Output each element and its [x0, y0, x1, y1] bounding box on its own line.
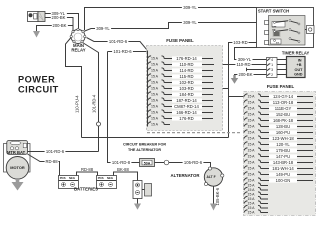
svg-text:113-OR-18: 113-OR-18 — [273, 100, 294, 105]
wire 103-RD start switch riser — [229, 43, 265, 138]
label 105-RD-6 — [183, 161, 204, 165]
wire 110-RD fuse panel to timer relay — [214, 64, 267, 66]
battery BT1 — [59, 176, 79, 189]
svg-text:RD-88: RD-88 — [81, 167, 94, 172]
ground arrow timer — [233, 75, 235, 78]
wire 101-RD-8 down to circuit breaker — [108, 52, 140, 163]
svg-text:120-YL: 120-YL — [276, 142, 290, 147]
svg-text:15 A: 15 A — [248, 173, 256, 177]
fuse F1-12 15A spare — [148, 122, 171, 127]
timer connector pin 3 — [267, 69, 270, 71]
svg-text:15 A: 15 A — [248, 167, 256, 171]
svg-text:181-WH-14: 181-WH-14 — [272, 166, 294, 171]
label 309-YL — [51, 12, 67, 16]
svg-text:POS: POS — [60, 176, 66, 180]
svg-text:+B: +B — [297, 63, 302, 67]
svg-text:101-RD-6: 101-RD-6 — [46, 149, 65, 154]
alternator G1 — [204, 167, 224, 186]
timer connector pin 2 — [267, 74, 270, 76]
svg-text:CIRCUIT: CIRCUIT — [18, 85, 59, 95]
label 103-RD — [232, 41, 248, 45]
footnote tiny dashed note under fuse panel 1 — [147, 132, 242, 134]
timer relay connector pins — [267, 58, 278, 78]
svg-text:168-PK-18: 168-PK-18 — [273, 118, 294, 123]
wire 105-RD-6 breaker to alternator — [155, 163, 211, 169]
svg-text:OUT: OUT — [294, 68, 303, 72]
fuse F2-2 15A 113-OR-18 — [244, 100, 313, 105]
svg-text:124-GY-14: 124-GY-14 — [273, 94, 294, 99]
inline connector circle — [164, 160, 169, 165]
svg-text:102-RD: 102-RD — [179, 80, 193, 85]
svg-text:15 A: 15 A — [248, 137, 256, 141]
svg-text:15 A: 15 A — [248, 149, 256, 153]
svg-text:NEG: NEG — [107, 176, 113, 180]
start switch inner contact block — [269, 16, 306, 46]
label 309-YL — [182, 6, 198, 10]
svg-text:THE ALTERNATOR: THE ALTERNATOR — [128, 148, 161, 152]
fuse F1-2 15A 110-RD — [148, 62, 215, 67]
fuse F1-9 15A CM87-RD-14 — [148, 104, 214, 109]
start switch side key box — [305, 29, 307, 31]
label 101-RD-6 — [108, 40, 129, 44]
ground arrow disconnect switch — [134, 204, 141, 210]
svg-text:110-RD: 110-RD — [179, 62, 193, 67]
svg-text:BK-88: BK-88 — [117, 167, 129, 172]
wire 101-RD-6 branch bracket — [108, 51, 148, 53]
svg-text:15 A: 15 A — [151, 75, 159, 79]
svg-text:POS: POS — [98, 176, 104, 180]
svg-text:15 A: 15 A — [248, 155, 256, 159]
fuse F2-20 15A spare — [244, 201, 268, 206]
motor solenoid connector MTR BAT — [7, 141, 28, 156]
wire feed to right fuse panel top — [229, 96, 244, 98]
svg-text:RD-88: RD-88 — [45, 159, 58, 164]
svg-text:ON: ON — [272, 29, 276, 31]
fuse F2-11 15A 147-PU — [244, 154, 313, 159]
label 110-RD — [235, 63, 251, 67]
wire timer pin3 stub — [247, 68, 267, 71]
fuse F2-3 15A 111B-GY — [244, 106, 313, 111]
fuse F1-8 15A 187-RD-14 — [148, 98, 214, 103]
svg-text:OFF: OFF — [272, 27, 277, 29]
fuse F2-19 15A spare — [244, 196, 268, 201]
svg-text:15 A: 15 A — [151, 57, 159, 61]
wire 110-PU-4 from relay left down to bottom bus — [66, 38, 82, 138]
svg-text:110-RD: 110-RD — [236, 62, 250, 67]
fuse F1-3 15A 114-RD — [148, 68, 214, 73]
svg-text:152-BU: 152-BU — [276, 112, 290, 117]
svg-text:FUSE PANEL: FUSE PANEL — [267, 84, 295, 89]
svg-text:143-BR-18: 143-BR-18 — [273, 160, 294, 165]
fuse F2-10 15A 179-BU — [244, 148, 313, 153]
fuse F1-5 15A 102-RD — [148, 80, 214, 85]
label 309-YL — [236, 58, 252, 62]
svg-text:TIMER RELAY: TIMER RELAY — [282, 50, 310, 55]
svg-text:15 A: 15 A — [248, 184, 256, 188]
svg-text:101-RD-6: 101-RD-6 — [113, 49, 132, 54]
fuse F2-9 15A 120-YL — [244, 142, 313, 147]
fuse panel 1 (left) box — [147, 46, 223, 131]
svg-text:184-RD: 184-RD — [179, 92, 193, 97]
svg-text:200-BK: 200-BK — [52, 15, 66, 20]
svg-text:15 A: 15 A — [248, 179, 256, 183]
svg-text:15 A: 15 A — [248, 107, 256, 111]
svg-text:15 A: 15 A — [151, 63, 159, 67]
label 101-RD-8 — [111, 161, 132, 165]
svg-text:RELAY: RELAY — [71, 48, 85, 53]
svg-text:15 A: 15 A — [248, 143, 256, 147]
ground arrow alternator — [210, 204, 217, 211]
fuse F2-4 15A 152-BU — [244, 112, 313, 117]
splice junction circle — [97, 122, 101, 126]
svg-text:200-BK: 200-BK — [239, 72, 253, 77]
svg-text:123-WH-18: 123-WH-18 — [272, 136, 294, 141]
svg-text:110-PU-4: 110-PU-4 — [75, 95, 80, 113]
circuit breaker CB1 50A — [140, 159, 155, 167]
fuse F1-4 15A 115-RD — [148, 74, 214, 79]
svg-text:176-RD-14: 176-RD-14 — [176, 56, 197, 61]
fuse F1-6 15A 103-RD — [148, 86, 215, 91]
wire 101-RD-4 from relay bottom to motor junction — [83, 43, 99, 152]
fuse F2-15 15A 100-GN — [244, 178, 313, 183]
fuse F2-7 15A 160-PU — [244, 130, 313, 135]
timer relay box U1 — [287, 57, 306, 78]
svg-text:101-RD-6: 101-RD-6 — [109, 39, 128, 44]
wire 309-YL start switch to timer relay — [235, 48, 267, 60]
svg-text:147-PU: 147-PU — [276, 154, 290, 159]
svg-text:2: 2 — [271, 73, 273, 77]
svg-text:200-BK: 200-BK — [53, 23, 67, 28]
svg-text:BATTERIES: BATTERIES — [74, 187, 98, 192]
connector J1 (top left) — [28, 12, 48, 22]
svg-text:309-YL: 309-YL — [96, 26, 110, 31]
label 101-RD-6 — [112, 50, 133, 54]
fuse F1-10 15A 166-RD-14 — [148, 110, 214, 115]
wire RD-88 motor to battery 1 — [28, 154, 60, 176]
fuse F1-1 15A 176-RD-14 — [148, 56, 214, 61]
svg-text:101-RD-8: 101-RD-8 — [112, 160, 131, 165]
fuse F2-12 15A 143-BR-18 — [244, 160, 313, 165]
svg-text:GND: GND — [294, 73, 303, 77]
motor frame — [4, 144, 31, 173]
fuse F2-13 15A 181-WH-14 — [244, 166, 313, 171]
start switch inner detail rects — [272, 22, 285, 28]
svg-text:15 A: 15 A — [248, 161, 256, 165]
start switch S1 outer box — [257, 8, 314, 48]
svg-text:3: 3 — [271, 68, 273, 72]
svg-text:15 A: 15 A — [248, 202, 256, 206]
start switch contacts — [274, 20, 301, 43]
fuse F2-21 15A spare — [244, 205, 268, 210]
wire 309-YL second line from main relay to start switch pin B — [84, 23, 265, 32]
svg-text:NEG: NEG — [69, 176, 75, 180]
wire BK-88 battery2 to disconnect switch — [114, 172, 138, 181]
label RD-88 — [45, 160, 59, 164]
label 101-RD-6 — [45, 150, 66, 154]
svg-text:115-RD: 115-RD — [179, 74, 193, 79]
svg-text:309-YL: 309-YL — [183, 20, 197, 25]
svg-text:114-RD: 114-RD — [179, 68, 193, 73]
svg-text:MTR BAT: MTR BAT — [7, 150, 26, 155]
fuse F2-5 15A 168-PK-18 — [244, 118, 313, 123]
svg-text:187-RD-14: 187-RD-14 — [176, 98, 197, 103]
wire 101-RD-6 main relay to fuse panel feed — [87, 38, 148, 127]
wire 200-BK connector ground branch — [37, 26, 74, 32]
svg-text:128-BU: 128-BU — [276, 124, 290, 129]
svg-text:POWER: POWER — [18, 75, 55, 85]
svg-text:15 A: 15 A — [248, 193, 256, 197]
fuse F2-16 15A spare — [244, 183, 268, 188]
wire branch to fuse row 103-RD — [214, 88, 229, 90]
svg-text:IN: IN — [298, 58, 302, 62]
start switch pins — [265, 21, 269, 45]
fuse F2-22 15A spare — [244, 210, 268, 215]
svg-text:15 A: 15 A — [151, 111, 159, 115]
battery BT2 — [97, 176, 117, 189]
svg-text:15 A: 15 A — [151, 123, 159, 127]
battery disconnect switch S2 — [133, 181, 152, 199]
svg-text:15 A: 15 A — [151, 105, 159, 109]
fuse F2-8 15A 123-WH-18 — [244, 136, 313, 141]
wire 200-BK timer relay to ground — [235, 75, 267, 79]
main relay K1 — [70, 28, 86, 43]
fuse F2-6 15A 128-BU — [244, 124, 313, 129]
label 309-YL — [182, 21, 198, 25]
svg-text:15 A: 15 A — [248, 101, 256, 105]
svg-text:15 A: 15 A — [248, 131, 256, 135]
svg-text:15 A: 15 A — [248, 188, 256, 192]
fuse F2-18 15A spare — [244, 192, 268, 197]
svg-text:100-GN: 100-GN — [276, 178, 291, 183]
timer connector pin 4 — [267, 59, 270, 61]
label 200-BK — [237, 73, 253, 77]
svg-text:CIRCUIT BREAKER FOR: CIRCUIT BREAKER FOR — [123, 143, 166, 147]
svg-text:103-RD: 103-RD — [233, 40, 247, 45]
svg-text:103-RD: 103-RD — [179, 86, 193, 91]
svg-text:160-PU: 160-PU — [276, 130, 290, 135]
svg-text:15 A: 15 A — [248, 211, 256, 215]
svg-text:15 A: 15 A — [248, 113, 256, 117]
svg-text:111B-GY: 111B-GY — [275, 106, 292, 111]
svg-text:15 A: 15 A — [248, 206, 256, 210]
fuse F2-14 15A 149-PU — [244, 172, 313, 177]
svg-text:309-YL: 309-YL — [183, 5, 197, 10]
svg-text:149-PU: 149-PU — [276, 172, 290, 177]
fuse F1-7 15A 184-RD — [148, 92, 214, 97]
fuse F1-11 15A 176-RD — [148, 116, 214, 121]
wire 309-YL connector to main relay top — [44, 14, 79, 30]
svg-text:FUSE PANEL: FUSE PANEL — [166, 38, 194, 43]
fuse F2-1 15A 124-GY-14 — [244, 94, 313, 99]
fuse panel 1 bus — [147, 51, 149, 127]
svg-text:15 A: 15 A — [248, 119, 256, 123]
svg-text:ALTERNATOR: ALTERNATOR — [171, 173, 201, 178]
ground arrow below connector — [33, 31, 40, 38]
svg-text:START SWITCH: START SWITCH — [258, 9, 289, 14]
svg-text:166-RD-14: 166-RD-14 — [176, 110, 197, 115]
svg-text:15 A: 15 A — [151, 81, 159, 85]
svg-text:179-BU: 179-BU — [276, 148, 290, 153]
motor M1 — [6, 157, 29, 180]
svg-text:CM87-RD-14: CM87-RD-14 — [174, 104, 199, 109]
svg-text:15 A: 15 A — [151, 117, 159, 121]
svg-text:105-BK-6: 105-BK-6 — [215, 187, 220, 205]
svg-text:MOTOR: MOTOR — [10, 165, 25, 170]
wire 309-YL top bus from main relay to start switch — [85, 8, 257, 31]
svg-text:15 A: 15 A — [248, 125, 256, 129]
wire alternator to ground — [213, 186, 215, 204]
label 309-YL — [95, 27, 111, 31]
svg-text:15 A: 15 A — [248, 95, 256, 99]
timer relay wires to box — [277, 60, 287, 75]
label 200-BK — [51, 16, 67, 20]
svg-text:4: 4 — [271, 58, 273, 62]
svg-text:101-RD-4: 101-RD-4 — [92, 94, 97, 113]
svg-text:50A: 50A — [144, 162, 151, 166]
svg-text:1: 1 — [271, 63, 273, 67]
svg-text:15 A: 15 A — [151, 69, 159, 73]
svg-text:15 A: 15 A — [151, 93, 159, 97]
wire RD-88 battery1 to battery2 — [77, 172, 98, 176]
svg-text:15 A: 15 A — [248, 197, 256, 201]
svg-text:15 A: 15 A — [151, 99, 159, 103]
fuse panel 2 (right) box — [244, 92, 316, 216]
wire 200-BK connector to main relay top-left — [44, 18, 73, 31]
svg-text:176-RD: 176-RD — [179, 116, 193, 121]
svg-text:ALT F: ALT F — [207, 175, 216, 179]
wire disconnect switch to ground — [137, 199, 139, 204]
wire bottom feed bus to start switch riser — [82, 137, 229, 139]
wire 101-RD-6 motor feed — [28, 151, 99, 153]
label 200-BK — [52, 24, 68, 28]
timer connector pin 1 — [267, 64, 270, 66]
ground arrow motor — [16, 178, 20, 182]
fuse F2-17 15A spare — [244, 187, 268, 192]
svg-text:105-RD-6: 105-RD-6 — [184, 160, 203, 165]
svg-text:15 A: 15 A — [151, 87, 159, 91]
